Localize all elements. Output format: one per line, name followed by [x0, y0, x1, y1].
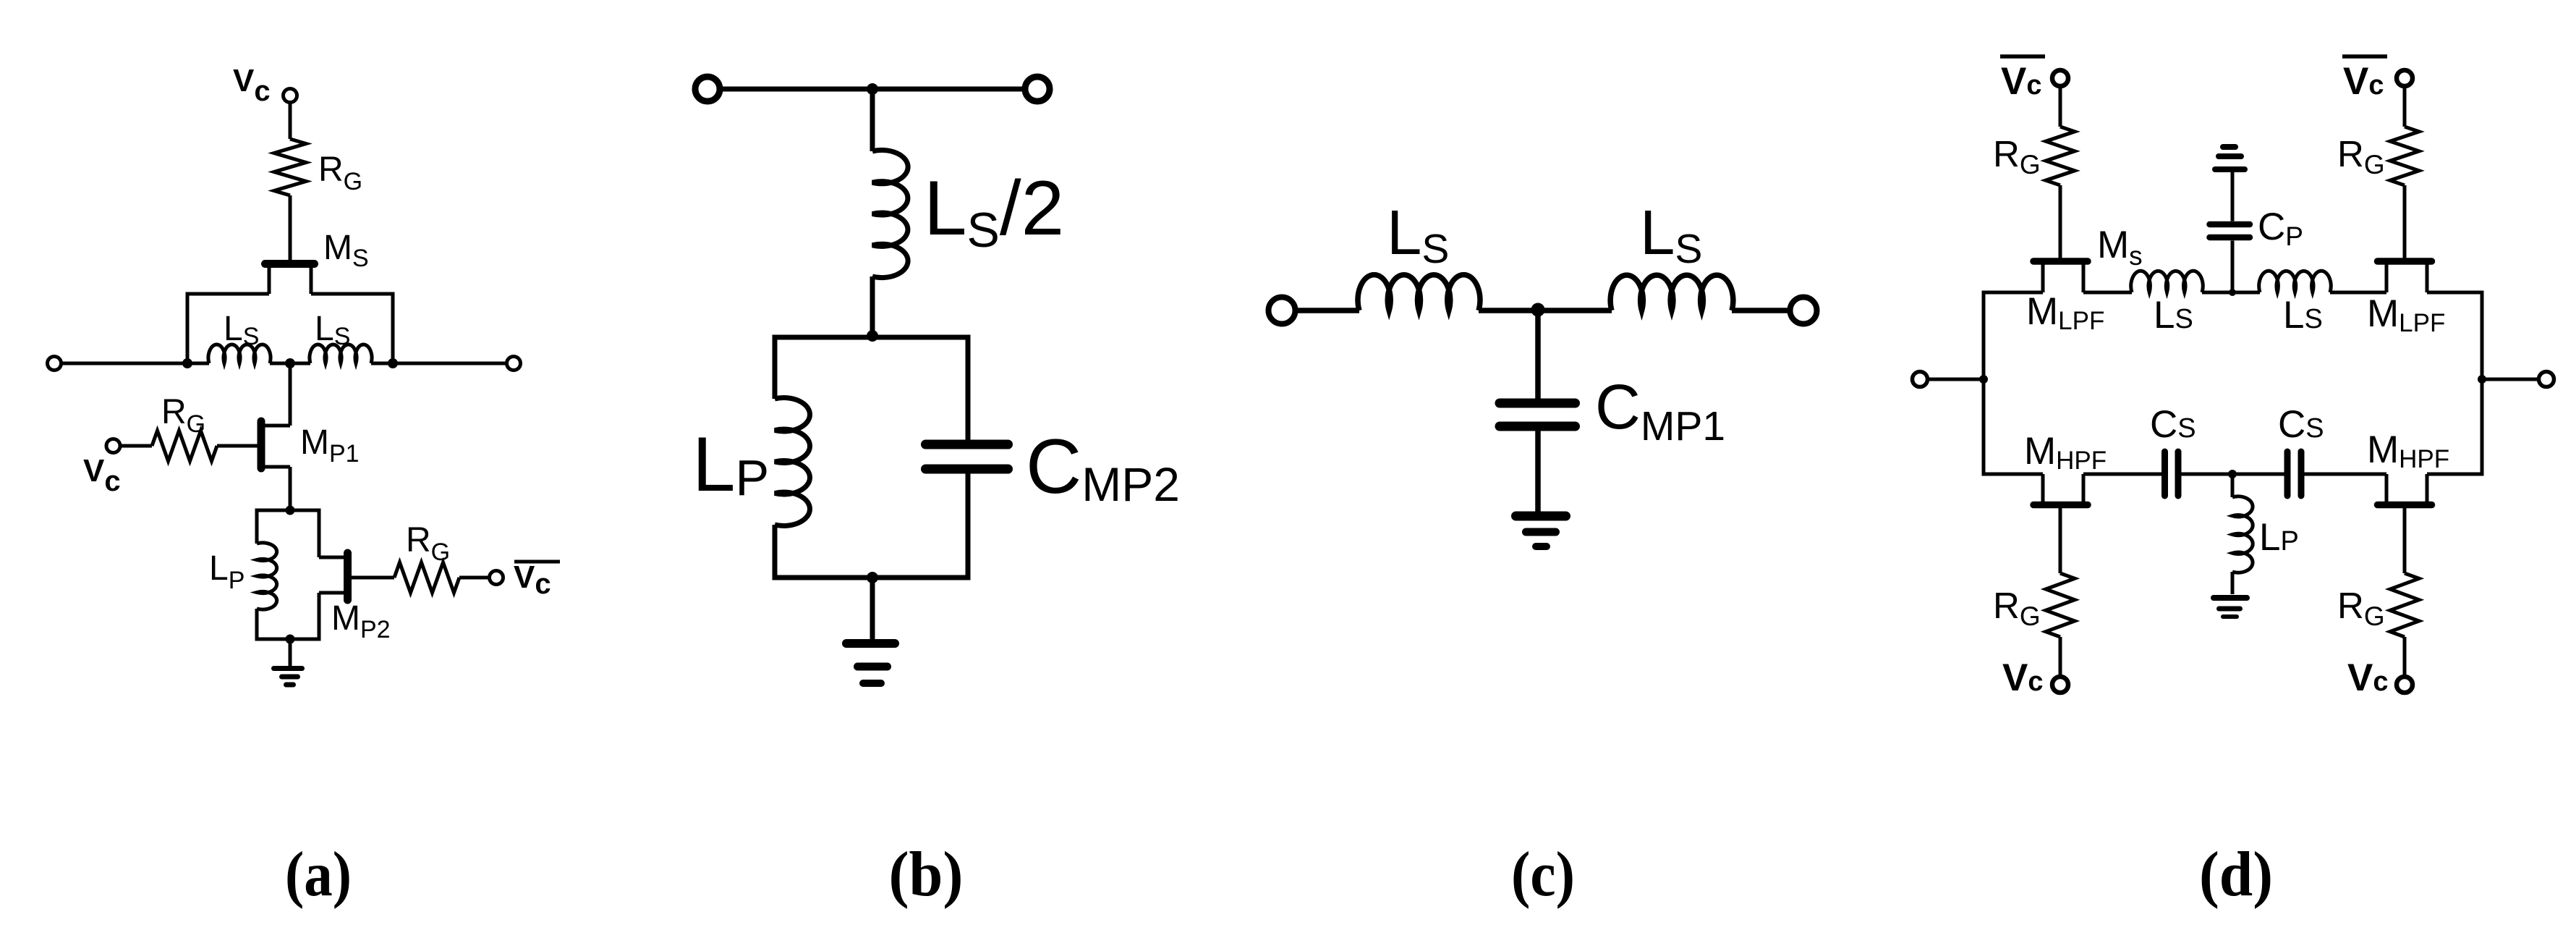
resistor R_G bottom-left (d): [2046, 573, 2075, 637]
wire Vcbar to RG top-left (d): [2059, 86, 2062, 127]
wire tank right upper (a): [318, 510, 321, 557]
wire tank right lower (b): [966, 474, 971, 578]
transistor M_HPF left stub B (d): [2082, 474, 2086, 502]
ground (d): [2214, 598, 2247, 617]
terminal Vc-bar top-left (d): [2052, 70, 2068, 86]
wire tank bottom (a): [255, 638, 321, 641]
resistor R_G top-left (d): [2046, 127, 2075, 185]
label L_S left (d): [2154, 294, 2193, 337]
wire tank right upper (b): [966, 337, 971, 440]
transistor M_LPF left gate bar (d): [2033, 258, 2088, 265]
junction center rail (a): [285, 358, 295, 368]
label R_G bottom-left (d): [1993, 585, 2041, 631]
wire junction to LP (d): [2231, 474, 2235, 497]
resistor R_G of MP2 (a): [394, 562, 459, 593]
junction tank bottom (b): [867, 572, 878, 583]
terminal Vc bottom-left (d): [2052, 677, 2068, 693]
wire RG to MLPF right gate (d): [2403, 185, 2407, 259]
transistor M_HPF right stub B (d): [2426, 474, 2429, 502]
junction port left (d): [1979, 375, 1988, 384]
svg-text:(b): (b): [889, 840, 964, 910]
node Vc-bar label overline top-right (d): [2342, 54, 2387, 59]
transistor M_HPF left stub A (d): [2041, 474, 2045, 502]
wire LS right to port (a): [371, 362, 507, 366]
label M_LPF right (d): [2367, 292, 2445, 337]
resistor R_G top (a): [274, 139, 306, 195]
terminal Vc (a): [284, 89, 297, 103]
wire port to LS left (c): [1298, 308, 1359, 313]
ground (b): [846, 643, 895, 683]
wire Vc to RG (a): [289, 103, 292, 140]
inductor L_P (b): [775, 398, 810, 526]
wire LS left to junction (c): [1479, 308, 1612, 313]
label L_P (d): [2259, 516, 2299, 559]
label L_S/2 (b): [924, 164, 1064, 258]
node Vc-bar label (a): [514, 559, 551, 600]
wire LS left to center (a): [270, 362, 310, 366]
wire left drop (a): [186, 292, 190, 364]
ground (c): [1516, 516, 1566, 546]
wire CP upper (d): [2231, 171, 2235, 221]
wire junction to cap (c): [1535, 310, 1541, 399]
node Vc supply label (a): [233, 63, 271, 107]
capacitor C_S left plate A (d): [2161, 452, 2168, 496]
label C_S right (d): [2278, 403, 2324, 446]
inductor L_S left (a): [208, 345, 271, 363]
transistor M_P1 source stub (a): [263, 465, 291, 469]
junction port right (d): [2478, 375, 2486, 384]
capacitor C_S left plate B (d): [2175, 452, 2182, 496]
transistor M_S drain stub (a): [268, 266, 271, 294]
label M_HPF right (d): [2367, 428, 2449, 473]
label L_S left (a): [224, 310, 259, 350]
wire CP lower (d): [2231, 241, 2235, 293]
wire tank left lower (a): [255, 609, 259, 639]
node Vc-bar label overline (a): [514, 560, 560, 564]
wire LS right to port (c): [1732, 308, 1790, 313]
wire to ground (b): [870, 578, 875, 641]
wire MS source to right drop (a): [311, 292, 393, 296]
wire right bus (d): [2481, 291, 2484, 476]
junction (c): [1531, 303, 1545, 317]
capacitor C_MP1 bottom plate (c): [1500, 422, 1576, 431]
wire MHPF right gate (d): [2403, 507, 2407, 573]
transistor M_S gate bar (a): [265, 260, 315, 268]
transistor M_S source stub (a): [310, 266, 313, 294]
wire port left (d): [1928, 378, 1984, 381]
wire MP1 gate (a): [217, 444, 260, 448]
inductor L_S right (a): [310, 345, 372, 363]
label R_G of MP2 (a): [406, 521, 450, 566]
label M_s (d): [2097, 224, 2143, 271]
wire LS2 to tank (b): [870, 276, 875, 337]
wire tank top (a): [255, 509, 321, 512]
wire MHPF to CS left (d): [2083, 473, 2161, 476]
node Vc label bottom-right (d): [2347, 656, 2389, 699]
label C_S left (d): [2150, 403, 2196, 446]
capacitor C_S right plate A (d): [2284, 452, 2291, 496]
terminal port right (c): [1790, 297, 1817, 324]
transistor M_HPF right gate bar (d): [2378, 502, 2432, 509]
terminal port right (b): [1025, 77, 1050, 101]
wire port right (d): [2482, 378, 2540, 381]
capacitor C_MP2 top plate (b): [926, 440, 1008, 449]
terminal port left (c): [1269, 297, 1296, 324]
label M_P2 (a): [331, 599, 391, 643]
wire MP2 gate (a): [349, 576, 394, 580]
wire CS right to MHPF right (d): [2305, 473, 2387, 476]
label L_P (a): [209, 549, 245, 594]
wire MHPF left gate (d): [2059, 507, 2062, 573]
wire RG to Vc bottom-left (d): [2059, 637, 2062, 677]
terminal port right (d): [2539, 372, 2554, 387]
caption (d): [2199, 840, 2273, 910]
wire CS left to junction (d): [2182, 473, 2284, 476]
capacitor C_MP2 bottom plate (b): [926, 465, 1008, 474]
transistor M_P2 top stub (a): [319, 556, 346, 559]
junction LP bottom (a): [286, 635, 295, 644]
wire top rail left (d): [1984, 291, 2043, 295]
ground inverted (d): [2215, 147, 2245, 169]
inductor L_P (d): [2232, 497, 2253, 572]
wire LP to ground (d): [2231, 572, 2235, 594]
label C_MP2 (b): [1026, 423, 1180, 511]
terminal port left (a): [48, 357, 61, 371]
capacitor C_P top plate (d): [2210, 221, 2250, 228]
wire LS right to MLPF right (d): [2330, 291, 2386, 295]
wire port left to rail (a): [61, 362, 210, 366]
terminal Vc bottom-right (d): [2397, 677, 2413, 693]
label C_P (d): [2258, 206, 2303, 251]
label L_S left (c): [1387, 198, 1449, 272]
transistor M_HPF left gate bar (d): [2033, 502, 2088, 509]
wire RG to MS gate (a): [289, 195, 292, 261]
node Vc-bar label top-left (d): [2001, 60, 2042, 103]
label R_G bottom-right (d): [2337, 585, 2385, 631]
capacitor C_S right plate B (d): [2298, 452, 2305, 496]
node Vc-bar label overline top-left (d): [2000, 54, 2045, 59]
resistor R_G bottom-right (d): [2390, 573, 2419, 637]
label R_G top-left (d): [1993, 133, 2041, 179]
wire Vcbar to RG top-right (d): [2403, 86, 2407, 127]
svg-text:(a): (a): [285, 840, 352, 910]
transistor M_P1 drain stub (a): [263, 424, 291, 428]
wire RG to Vcbar terminal (a): [459, 576, 490, 580]
junction CP (d): [2229, 289, 2236, 296]
wire tank left upper (a): [255, 510, 259, 544]
wire tank right lower (a): [318, 593, 321, 639]
junction right (a): [388, 358, 398, 368]
wire tank left upper (b): [773, 337, 778, 399]
node Vc label bottom-left (d): [2002, 656, 2044, 699]
wire bottom rail right (d): [2427, 473, 2482, 476]
junction LP top (d): [2228, 470, 2237, 478]
label L_S right (a): [315, 310, 350, 350]
transistor M_LPF left stub B (d): [2082, 263, 2086, 292]
wire RG to Vc bottom-right (d): [2403, 637, 2407, 677]
transistor M_P2 bottom stub (a): [319, 591, 346, 595]
caption (b): [889, 840, 964, 910]
resistor R_G of MP1 (a): [152, 431, 217, 461]
inductor L_S left (c): [1358, 275, 1480, 310]
transistor M_LPF right stub A (d): [2385, 263, 2389, 292]
label M_P1 (a): [300, 423, 360, 468]
label L_S right (c): [1640, 198, 1702, 272]
inductor L_S right (d): [2259, 271, 2331, 292]
transistor M_P2 gate bar (a): [344, 553, 352, 600]
wire bottom rail left (d): [1984, 473, 2043, 476]
junction left (a): [182, 358, 192, 368]
transistor M_LPF left stub A (d): [2041, 263, 2045, 292]
svg-text:(c): (c): [1511, 840, 1575, 910]
caption (a): [285, 840, 352, 910]
wire tank top (b): [773, 335, 971, 340]
wire left bus (d): [1982, 291, 1986, 476]
svg-text:(d): (d): [2199, 840, 2273, 910]
ground (a): [274, 669, 302, 685]
inductor L_S/2 (b): [872, 150, 908, 277]
inductor L_P (a): [257, 543, 277, 609]
wire MP1 source down (a): [289, 467, 292, 510]
inductor L_S left (d): [2131, 271, 2203, 292]
wire center to MP1 drain (a): [289, 363, 292, 426]
wire to ground (a): [289, 639, 292, 667]
wire right drop (a): [391, 292, 395, 364]
wire RG to MLPF gate (d): [2059, 185, 2062, 259]
label L_S right (d): [2283, 294, 2323, 337]
transistor M_P1 gate bar (a): [258, 421, 265, 468]
wire rail to LS2 (b): [870, 89, 875, 151]
label L_P (b): [692, 421, 769, 507]
terminal Vc of MP1 (a): [106, 439, 120, 453]
caption (c): [1511, 840, 1575, 910]
capacitor C_MP1 top plate (c): [1500, 399, 1576, 408]
terminal port left (b): [695, 77, 720, 101]
wire cap to ground (c): [1535, 431, 1541, 515]
inductor L_S right (c): [1610, 275, 1733, 310]
transistor M_HPF right stub A (d): [2385, 474, 2389, 502]
transistor M_LPF right gate bar (d): [2378, 258, 2432, 265]
wire LS left to center (d): [2202, 291, 2260, 295]
wire tank left lower (b): [773, 525, 778, 578]
node Vc-bar label top-right (d): [2343, 60, 2384, 103]
label R_G top-right (d): [2337, 133, 2385, 179]
resistor R_G top-right (d): [2390, 127, 2419, 185]
wire Vc to RG (a) MP1: [120, 444, 152, 448]
label C_MP1 (c): [1595, 372, 1725, 449]
junction tank top (b): [867, 330, 878, 342]
wire MLPF to LS left (d): [2083, 291, 2132, 295]
label M_S (a): [323, 229, 369, 272]
junction top rail (b): [867, 83, 878, 95]
transistor M_LPF right stub B (d): [2426, 263, 2429, 292]
label R_G of MP1 (a): [161, 393, 205, 438]
label R_G top (a): [318, 151, 362, 195]
wire top rail (b): [723, 87, 1022, 92]
terminal port left (d): [1913, 372, 1928, 387]
terminal Vc-bar of MP2 (a): [490, 571, 503, 585]
wire top rail right (d): [2427, 291, 2482, 295]
capacitor C_P bottom plate (d): [2210, 234, 2250, 241]
wire tank bottom (b): [773, 575, 971, 580]
label M_LPF left (d): [2026, 290, 2104, 335]
node Vc label of MP1 (a): [83, 453, 121, 497]
terminal Vc-bar top-right (d): [2397, 70, 2413, 86]
terminal port right (a): [507, 357, 521, 371]
label M_HPF left (d): [2024, 430, 2107, 475]
junction LP top (a): [286, 506, 295, 515]
wire MS drain to left drop (a): [187, 292, 269, 296]
